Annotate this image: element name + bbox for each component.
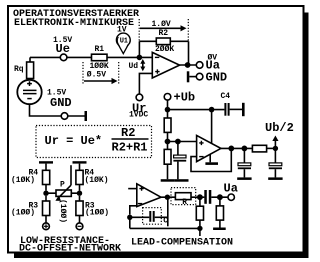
- input wire U3 xyxy=(130,206,137,215)
+ input stub U3 xyxy=(128,188,137,190)
svg-text:R1: R1 xyxy=(95,45,105,54)
svg-text:C4: C4 xyxy=(221,92,231,101)
resistor Rq xyxy=(27,62,34,79)
svg-text:GND: GND xyxy=(50,96,72,110)
junction row2 mid xyxy=(175,139,181,145)
resistor R4 left xyxy=(43,170,50,184)
output wire U3 xyxy=(161,196,204,198)
node A junction xyxy=(137,55,143,61)
svg-text:Rq: Rq xyxy=(14,65,24,74)
junction row2 left xyxy=(165,139,171,145)
svg-text:Ue: Ue xyxy=(56,42,70,56)
junction output U3 xyxy=(165,195,170,200)
ground terminal bar xyxy=(187,71,190,82)
svg-text:LEAD-COMPENSATION: LEAD-COMPENSATION xyxy=(131,238,233,249)
ground bar divider xyxy=(161,179,175,182)
ground bar B xyxy=(213,228,226,231)
junction after R xyxy=(197,194,203,200)
wire: + input to Ur terminal xyxy=(139,73,152,94)
svg-text:GND: GND xyxy=(206,70,228,84)
R dotted box xyxy=(171,188,196,205)
svg-text:1V: 1V xyxy=(117,26,127,35)
node right junction xyxy=(77,191,82,196)
svg-text:DC-OFFSET-NETWORK: DC-OFFSET-NETWORK xyxy=(19,244,121,255)
op-amp U3 xyxy=(137,184,161,207)
feedback resistor R2 xyxy=(139,40,188,42)
svg-text:(U1): (U1) xyxy=(116,38,132,46)
wire: Rq branch down from input rail xyxy=(29,57,31,62)
bypass capacitor column xyxy=(177,142,179,156)
ground bar filter 1 xyxy=(237,177,251,180)
shunt resistor B xyxy=(219,197,221,206)
terminal GND xyxy=(196,73,203,80)
formula box dotted xyxy=(36,126,152,158)
voltmeter balloon U1 xyxy=(116,33,130,47)
Ud differential double arrow xyxy=(142,62,144,67)
svg-text:(1ØØ): (1ØØ) xyxy=(85,209,109,218)
terminal minus xyxy=(76,223,83,230)
svg-text:Ub/2: Ub/2 xyxy=(265,121,294,135)
junction supply left xyxy=(165,107,171,113)
op-amp U1 xyxy=(152,52,179,78)
pot wiper line xyxy=(70,165,72,185)
wire: pot row xyxy=(46,192,80,194)
C4 end terminal bar xyxy=(242,103,245,116)
svg-text:R2: R2 xyxy=(121,126,135,140)
compensation capacitor C row xyxy=(130,216,150,218)
ground bar filter 2 xyxy=(268,177,282,180)
resistor divider lower xyxy=(167,142,169,150)
terminal Ua out xyxy=(228,194,234,200)
svg-text:(1ØK): (1ØK) xyxy=(11,176,35,185)
offset network: left rail bar xyxy=(39,161,53,163)
bottom rail U3 xyxy=(130,227,200,229)
junction supply mid xyxy=(209,107,215,113)
series capacitor after R xyxy=(204,190,211,204)
filter capacitor 2 xyxy=(274,148,276,163)
node left junction xyxy=(43,191,48,196)
terminal Ua xyxy=(196,62,203,69)
resistor R series xyxy=(175,193,191,200)
resistor R1 xyxy=(92,54,108,61)
resistor R4 right xyxy=(76,170,83,184)
output wire U2 xyxy=(221,147,253,149)
wire: output down to C row xyxy=(167,197,169,226)
resistor R3 left xyxy=(45,196,47,201)
stub below rail xyxy=(199,228,201,236)
ground end bar xyxy=(85,111,88,121)
potentiometer P xyxy=(56,190,71,196)
junction Ub/2 xyxy=(273,146,278,151)
feedback wire op-amp U2 xyxy=(191,151,231,172)
wire: op-amp output to Ua xyxy=(180,64,197,66)
svg-text:(1ØK): (1ØK) xyxy=(85,176,109,185)
terminal +Ub xyxy=(164,94,171,101)
junction - node U3 xyxy=(127,215,132,220)
annotation 100K / 0.5V dotted measurement box xyxy=(83,62,119,85)
svg-text:Ø.5V: Ø.5V xyxy=(87,71,106,80)
junction before Ua xyxy=(217,194,223,200)
svg-text:(1ØØ): (1ØØ) xyxy=(58,199,67,223)
resistor divider upper xyxy=(164,118,171,132)
junction output U2 xyxy=(228,146,234,152)
svg-text:Ud: Ud xyxy=(129,62,139,71)
svg-text:1ØØK: 1ØØK xyxy=(90,62,109,71)
supply rail xyxy=(168,109,225,111)
resistor R3 right xyxy=(79,196,81,201)
battery source 1.5V xyxy=(17,80,41,104)
svg-text:+Ub: +Ub xyxy=(174,90,196,104)
wire row2 to op-amp xyxy=(168,141,197,143)
svg-text:P: P xyxy=(60,180,65,189)
op-amp U2 xyxy=(211,110,213,143)
C dotted box xyxy=(143,208,162,225)
capacitor C4 xyxy=(224,103,229,116)
wire: - node down to rail xyxy=(129,217,131,228)
wire: source to GND rail xyxy=(30,104,62,116)
wire: node A up to R2 feedback xyxy=(138,41,140,57)
svg-text:Ur = Ue*: Ur = Ue* xyxy=(45,134,103,148)
junction output node xyxy=(185,62,191,68)
svg-text:(1ØØ): (1ØØ) xyxy=(11,209,35,218)
svg-text:1VDC: 1VDC xyxy=(129,111,148,120)
svg-text:R: R xyxy=(182,198,187,207)
terminal GND of source xyxy=(61,113,68,120)
svg-text:R2: R2 xyxy=(159,29,169,38)
svg-text:2ØØK: 2ØØK xyxy=(155,45,174,54)
arrow 0.5V xyxy=(84,80,113,82)
annotation 1.0V / R2 dotted measurement xyxy=(139,19,188,41)
shunt resistor A xyxy=(199,197,201,206)
terminal Ur xyxy=(136,94,143,101)
wire: Rq to source xyxy=(29,79,31,81)
ground bar bypass xyxy=(175,179,189,182)
node Ue terminal xyxy=(60,54,67,61)
wire: left divider column upper resistor xyxy=(167,110,169,118)
resistor output series xyxy=(252,145,266,152)
terminal plus xyxy=(43,223,50,230)
wire: main input rail Ue to op-amp xyxy=(30,56,152,58)
filter capacitor 1 xyxy=(243,148,245,163)
ground pin op-amp U2 xyxy=(209,155,211,163)
svg-text:1.ØV: 1.ØV xyxy=(152,20,171,29)
svg-text:R2+R1: R2+R1 xyxy=(112,141,148,155)
Ub/2 terminal arrow xyxy=(274,140,276,146)
svg-text:Ua: Ua xyxy=(224,182,238,196)
junction rail A xyxy=(197,226,202,231)
offset network: right rail bar xyxy=(73,161,87,163)
wire: R2 right down to output xyxy=(188,41,190,65)
junction filter xyxy=(242,146,248,152)
